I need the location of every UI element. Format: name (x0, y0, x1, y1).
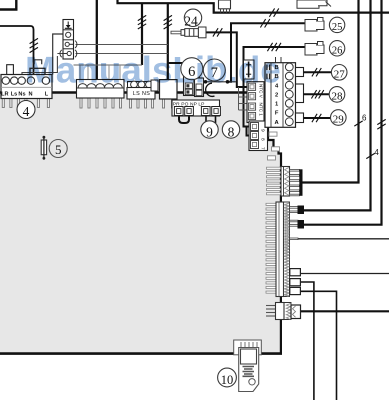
svg-text:Ns: Ns (18, 91, 25, 97)
svg-text:F: F (275, 111, 279, 117)
svg-text:4: 4 (374, 148, 379, 157)
svg-text:8: 8 (260, 138, 266, 141)
svg-text:LR: LR (1, 91, 8, 97)
svg-text:ManualsLib.de: ManualsLib.de (25, 50, 281, 91)
svg-text:Ls: Ls (11, 91, 18, 97)
svg-text:25: 25 (332, 22, 343, 33)
svg-text:L: L (45, 91, 49, 97)
svg-text:9: 9 (206, 124, 213, 139)
svg-text:24: 24 (184, 14, 198, 29)
svg-text:NTC 1: NTC 1 (259, 103, 264, 117)
svg-text:29: 29 (333, 114, 345, 126)
svg-text:9: 9 (260, 129, 266, 132)
svg-text:10: 10 (221, 373, 234, 387)
svg-text:27: 27 (334, 68, 346, 80)
svg-text:6: 6 (362, 114, 367, 123)
svg-text:7: 7 (260, 147, 266, 150)
svg-text:2: 2 (275, 92, 278, 98)
svg-text:5: 5 (55, 142, 62, 157)
svg-text:26: 26 (332, 45, 343, 56)
svg-text:4: 4 (23, 104, 30, 119)
svg-text:N: N (28, 91, 32, 97)
svg-text:LS NS: LS NS (133, 91, 151, 97)
svg-text:28: 28 (332, 91, 344, 103)
svg-text:8: 8 (228, 124, 235, 139)
